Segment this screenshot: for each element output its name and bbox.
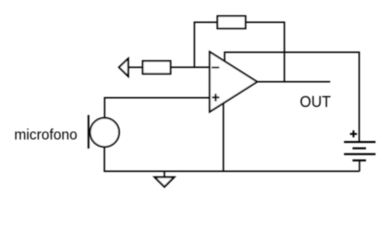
wire: output [257, 81, 330, 83]
wire: bottom ground rail [104, 170, 359, 172]
wire: microphone top stub [104, 98, 106, 119]
wire: feedback tap vertical [193, 22, 195, 67]
wire: feedback down to output node [283, 22, 285, 82]
wire: supply down to battery [358, 52, 360, 143]
wire: negative supply stub to ground rail [222, 103, 224, 172]
svg-text:microfono: microfono [14, 126, 77, 143]
wire: feedback top right [245, 21, 285, 23]
resistor R1 [143, 61, 171, 74]
wire: feedback top left [194, 21, 218, 23]
label battery + [350, 130, 357, 137]
battery B1 [344, 142, 376, 160]
non-inverting input label + [212, 94, 219, 102]
wire: positive supply rail [225, 51, 360, 53]
wire: resistor R1 to op-amp inverting input [170, 66, 210, 68]
wire: microphone bottom stub [103, 147, 105, 173]
svg-text:OUT: OUT [300, 94, 332, 111]
resistor R2 [217, 16, 245, 28]
ground [155, 171, 174, 187]
input terminal arrow [119, 59, 128, 77]
microphone MIC1 [89, 115, 120, 149]
op-amp U1 [210, 52, 257, 112]
wire: non-inverting input [104, 97, 210, 99]
inverting input label - [212, 67, 220, 69]
wire: arrow to resistor R1 [128, 66, 144, 68]
wire: battery negative to bottom rail [359, 160, 361, 171]
wire: positive supply stub from op-amp [224, 52, 226, 62]
